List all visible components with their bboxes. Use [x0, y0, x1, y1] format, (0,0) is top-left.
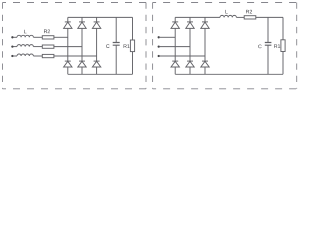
diode D1 top (left leg1) — [65, 21, 71, 23]
bridge leg 1 wire (right) — [174, 17, 176, 74]
bridge leg 2 wire (right) — [189, 17, 191, 74]
resistor R2 (right, on DC rail) — [244, 16, 256, 19]
capacitor C lead top (right) — [267, 17, 269, 42]
capacitor C plates (left) — [113, 43, 120, 46]
wire: resistor A to bridge leg 1 — [54, 36, 68, 38]
label R2 (right) — [246, 10, 249, 14]
inductor L on DC rail (right) — [220, 15, 236, 17]
bridge leg 1 wire (left) — [67, 17, 69, 74]
resistor R1 (left, vertical) — [130, 40, 134, 52]
input terminal node (phase B, right) — [158, 45, 160, 47]
wire: terminal B to bridge leg 2 (right) — [160, 46, 190, 48]
diode D2 top (left leg2) — [79, 21, 85, 23]
DC top rail segment: bridge to inductor (right) — [175, 16, 220, 18]
capacitor C lead bottom (right) — [267, 45, 269, 74]
bridge leg 3 wire (left) — [96, 17, 98, 74]
resistor R1 lead bottom (right) — [282, 52, 284, 75]
diode D2 top (right leg2) — [187, 21, 193, 23]
input terminal node (phase C) — [11, 55, 13, 57]
wire: inductor to resistor R2 (right) — [236, 16, 244, 18]
diode D5 bottom (right leg2) — [187, 60, 193, 62]
input terminal node (phase C, right) — [158, 55, 160, 57]
inductor L (phase A) — [17, 35, 33, 37]
diode D6 bottom (left leg3) — [94, 60, 100, 62]
resistor R1 lead top (right) — [282, 17, 284, 39]
wire: terminal B to inductor — [14, 46, 18, 48]
label R2 — [44, 30, 47, 34]
diode D6 bottom (right leg3) — [202, 60, 208, 62]
resistor R1 lead top (left) — [132, 17, 134, 40]
label L — [24, 30, 26, 34]
diode D4 bottom (left leg1) — [65, 60, 71, 62]
resistor (phase C) — [42, 54, 54, 57]
wire: resistor R2 to output node (right) — [256, 16, 283, 18]
inductor (phase C) — [17, 54, 33, 56]
wire: inductor B to resistor — [33, 46, 42, 48]
capacitor C lead top (left) — [115, 17, 117, 42]
label C (left) — [106, 44, 109, 48]
wire: terminal A to bridge leg 1 (right) — [160, 36, 175, 38]
right circuit dashed enclosure box — [153, 2, 297, 4]
DC top rail (left bridge) — [68, 16, 133, 18]
input terminal node (phase B) — [11, 45, 13, 47]
diode D3 top (right leg3) — [202, 21, 208, 23]
input terminal node (phase A, right) — [158, 36, 160, 38]
resistor R1 lead bottom (left) — [132, 52, 134, 75]
wire: terminal A to inductor — [14, 36, 18, 38]
wire: resistor B to bridge leg 2 — [54, 46, 82, 48]
resistor R1 (right, vertical) — [281, 40, 285, 52]
diode D3 top (left leg3) — [94, 21, 100, 23]
bridge leg 2 wire (left) — [81, 17, 83, 74]
capacitor C plates (right) — [265, 43, 272, 46]
DC bottom rail (left bridge) — [68, 73, 133, 75]
left circuit dashed enclosure box — [3, 2, 147, 4]
label R1 (left) — [124, 44, 127, 48]
diode D1 top (right leg1) — [172, 21, 178, 23]
inductor (phase B) — [17, 45, 33, 47]
label L (right) — [225, 10, 227, 14]
resistor R2 (phase A) — [42, 36, 54, 39]
wire: terminal C to bridge leg 3 (right) — [160, 55, 205, 57]
wire: resistor C to bridge leg 3 — [54, 55, 97, 57]
DC bottom rail (right bridge) — [175, 73, 283, 75]
wire: inductor C to resistor — [33, 55, 42, 57]
input terminal node (phase A) — [11, 36, 13, 38]
diode D5 bottom (left leg2) — [79, 60, 85, 62]
diode D4 bottom (right leg1) — [172, 60, 178, 62]
label R1 (right) — [274, 44, 277, 48]
label C (right) — [258, 45, 261, 49]
wire: terminal C to inductor — [14, 55, 18, 57]
bridge leg 3 wire (right) — [204, 17, 206, 74]
resistor (phase B) — [42, 45, 54, 48]
capacitor C lead bottom (left) — [115, 45, 117, 74]
wire: inductor A to resistor — [33, 36, 42, 38]
